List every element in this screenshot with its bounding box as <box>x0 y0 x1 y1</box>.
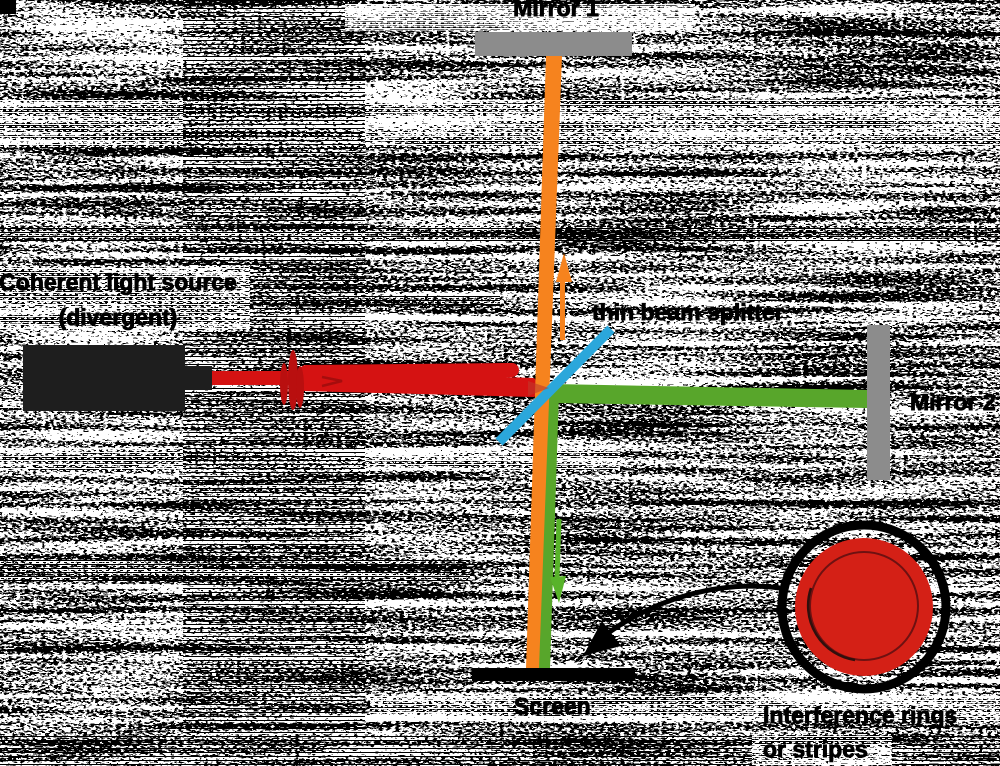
laser nozzle <box>185 366 212 390</box>
laser body <box>23 345 185 411</box>
svg-text:Mirror 2: Mirror 2 <box>910 389 996 415</box>
svg-text:Mirror 1: Mirror 1 <box>513 0 599 21</box>
orange beam (mirror 1 to screen) <box>526 56 562 668</box>
inner ring dark arc <box>808 588 855 660</box>
svg-text:thin beam splitter: thin beam splitter <box>592 299 784 325</box>
label (divergent) <box>59 304 178 330</box>
beam splitter (blue diagonal) <box>499 329 611 442</box>
label Interference rings <box>763 702 957 728</box>
green arrow down <box>550 519 566 603</box>
label Coherent light source <box>0 269 237 295</box>
label Mirror 2 <box>910 389 996 415</box>
svg-text:(divergent): (divergent) <box>59 304 178 330</box>
svg-text:or stripes: or stripes <box>763 736 868 762</box>
green beam horizontal (splitter to mirror 2) <box>552 384 867 408</box>
red beam inner arrow mark <box>322 377 342 386</box>
label Mirror 1 <box>513 0 599 21</box>
interference inner ring <box>810 552 918 660</box>
red beam lower lobe <box>302 370 544 397</box>
lens mark (divergent lens) <box>280 350 304 410</box>
svg-text:Coherent light source: Coherent light source <box>0 269 237 295</box>
svg-text:Interference rings: Interference rings <box>763 702 957 728</box>
screen <box>472 668 635 681</box>
label Screen <box>514 693 591 719</box>
corner blob <box>0 0 16 14</box>
mirror 2 <box>867 325 890 480</box>
label thin beam splitter <box>592 299 784 325</box>
red beam upper lobe <box>306 370 512 372</box>
interference red disc <box>795 538 933 676</box>
arrowhead <box>583 621 621 656</box>
red tip blend at junction <box>528 381 549 396</box>
curved arrow from circle to screen <box>604 586 780 636</box>
green beam vertical (splitter to screen) <box>536 392 559 668</box>
orange arrow up <box>556 253 572 340</box>
interference circle outer ring <box>782 525 946 689</box>
red beam thin (laser to lens) <box>212 371 304 385</box>
svg-text:Screen: Screen <box>514 693 591 719</box>
label or stripes <box>763 736 868 762</box>
mirror 1 <box>475 32 632 56</box>
